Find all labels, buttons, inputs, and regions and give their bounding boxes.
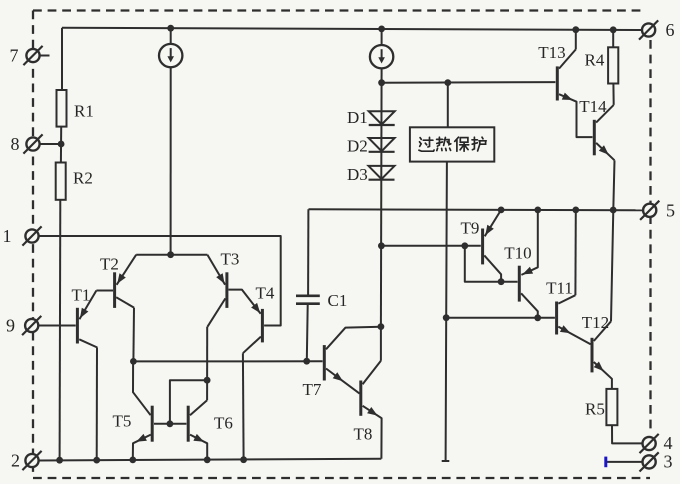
transistor T10 — [519, 210, 538, 318]
resistor R5 — [606, 389, 617, 425]
svg-text:R4: R4 — [585, 51, 605, 70]
svg-text:T13: T13 — [538, 43, 565, 62]
wire R1 to R2 — [60, 127, 62, 163]
svg-text:9: 9 — [6, 316, 15, 336]
wire pin8 to R1/R2 node — [40, 143, 62, 145]
label R2 — [73, 169, 93, 188]
pin 5 terminal — [640, 201, 659, 220]
label T13 — [538, 43, 565, 62]
svg-text:D2: D2 — [347, 137, 368, 156]
svg-text:T7: T7 — [303, 380, 322, 399]
node I1 top junction — [167, 25, 174, 32]
label T9 — [461, 219, 480, 238]
wire T4 collector down to ground rail — [242, 353, 245, 460]
transistor T1 — [77, 291, 97, 348]
svg-text:T5: T5 — [113, 412, 132, 431]
node pin8 junction — [58, 141, 65, 148]
node T2 collector junction — [130, 358, 137, 365]
transistor T13 — [557, 49, 592, 137]
wire bias rail to T13 base — [382, 81, 556, 84]
svg-text:4: 4 — [664, 433, 673, 453]
pin 3 terminal — [640, 452, 659, 471]
pin 7 terminal — [23, 46, 42, 65]
node T10 collector junction — [534, 314, 541, 321]
transistor T9 — [483, 210, 502, 282]
pin 6 terminal — [639, 20, 658, 39]
transistor T5 — [133, 361, 187, 460]
svg-text:1: 1 — [3, 226, 12, 246]
label pin 6 — [666, 20, 675, 40]
node T9 base-collector tie junction — [461, 242, 468, 249]
wire T12 collector / T14 emitter vertical — [611, 160, 615, 321]
label pin 1 — [3, 226, 12, 246]
svg-text:C1: C1 — [328, 291, 348, 310]
label T4 — [256, 284, 275, 303]
label pin 7 — [10, 46, 19, 66]
current source I1 — [159, 44, 182, 67]
node T11 collector junction — [572, 207, 579, 214]
wire I1 top stub — [170, 28, 172, 44]
node ground T1 — [93, 457, 100, 464]
node T9 emitter junction — [498, 207, 505, 214]
node T7/T8 collector junction — [378, 323, 385, 330]
wire pin 3 stub — [607, 461, 642, 463]
svg-text:7: 7 — [10, 46, 19, 66]
wire top supply rail — [62, 28, 642, 30]
wire R2 down to ground rail — [59, 200, 62, 460]
wire T9 base from diode chain — [381, 245, 480, 247]
current source I2 — [370, 45, 393, 68]
transistor T3 — [207, 255, 260, 327]
svg-text:T3: T3 — [221, 250, 240, 269]
diode D1 — [369, 111, 395, 125]
svg-text:T14: T14 — [579, 97, 607, 116]
node ground T4 — [240, 456, 247, 463]
label pin 3 — [664, 452, 673, 472]
node thermal-box top junction — [444, 79, 451, 86]
wire pin1 to T4 base — [39, 236, 281, 326]
svg-text:T8: T8 — [354, 425, 373, 444]
svg-text:T2: T2 — [100, 255, 119, 274]
svg-text:T4: T4 — [256, 284, 275, 303]
svg-text:R5: R5 — [585, 400, 605, 419]
svg-text:T1: T1 — [72, 286, 91, 305]
svg-text:T6: T6 — [214, 414, 233, 433]
node crossover to T3-collector junction — [204, 377, 211, 384]
node ground T5 — [129, 457, 136, 464]
label pin 9 — [6, 316, 15, 336]
label T2 — [100, 255, 119, 274]
svg-text:8: 8 — [11, 134, 20, 154]
resistor R1 — [57, 90, 67, 127]
pin 9 terminal — [22, 316, 41, 335]
wire output rail to pin 5 — [309, 209, 643, 210]
wire T11 collector up to output rail — [574, 210, 576, 295]
node thermal line junction — [443, 314, 450, 321]
wire common emitter rail of T2/T3 — [136, 254, 207, 256]
transistor T12 — [592, 321, 612, 389]
node ground R2 — [56, 457, 63, 464]
label T11 — [546, 279, 573, 298]
transistor T14 — [594, 105, 614, 160]
transistor T8 — [361, 361, 382, 459]
capacitor C1 — [296, 209, 320, 361]
node T13 collector junction — [572, 26, 579, 33]
wire I1 to diff-pair common emitter node — [170, 67, 172, 255]
label D2 — [347, 137, 368, 156]
label D1 — [347, 108, 368, 127]
wire ground rail from pin 2 — [39, 459, 382, 461]
label pin 2 — [11, 451, 20, 471]
label T6 — [214, 414, 233, 433]
diode D2 — [369, 138, 395, 152]
label thermal protection text — [419, 137, 486, 151]
wire pin7 stub — [40, 55, 50, 57]
wire T2-collector rail to T7 base — [133, 360, 322, 362]
wire T2 collector down — [132, 308, 135, 362]
wire R4 top stub — [612, 30, 614, 48]
transistor T4 — [243, 303, 263, 353]
pin 8 terminal — [23, 134, 42, 153]
thermal protection box U1 — [410, 83, 494, 162]
wire base crossover up — [170, 380, 207, 424]
label pin 8 — [11, 134, 20, 154]
label R5 — [585, 400, 605, 419]
wire I2 top stub — [381, 29, 383, 46]
svg-text:R1: R1 — [74, 102, 94, 121]
label pin 4 — [664, 433, 673, 453]
wire R4 bottom to T14 collector — [612, 84, 614, 105]
node I2 top junction — [378, 26, 385, 33]
node T10 emitter junction — [534, 207, 541, 214]
svg-text:D1: D1 — [347, 108, 368, 127]
node C1 bottom junction — [303, 358, 310, 365]
blue artifact mark — [604, 457, 607, 468]
svg-text:D3: D3 — [347, 165, 368, 184]
label T7 — [303, 380, 322, 399]
transistor T11 — [557, 295, 591, 344]
transistor T2 — [96, 255, 136, 308]
node T14 emitter junction on output rail — [610, 207, 617, 214]
svg-text:6: 6 — [666, 20, 675, 40]
pin 4 terminal — [640, 434, 659, 453]
wire T9 tie-down jog — [465, 246, 501, 282]
node bias rail junction — [378, 79, 385, 86]
resistor R4 — [608, 47, 618, 83]
node R4 top junction — [610, 26, 617, 33]
label T8 — [354, 425, 373, 444]
label R1 — [74, 102, 94, 121]
wire T1 collector down to ground rail — [96, 348, 98, 461]
transistor T6 — [188, 400, 207, 460]
label T3 — [221, 250, 240, 269]
diode D3 — [369, 166, 395, 180]
wire thermal box output down — [442, 162, 450, 461]
svg-text:T9: T9 — [461, 219, 480, 238]
label R4 — [585, 51, 605, 70]
label T5 — [113, 412, 132, 431]
svg-text:T11: T11 — [546, 279, 573, 298]
wire T10 base — [501, 281, 517, 283]
label T14 — [579, 97, 607, 116]
svg-text:T12: T12 — [582, 313, 609, 332]
node T10 base junction — [498, 278, 505, 285]
transistor T7 — [324, 327, 381, 394]
svg-text:5: 5 — [666, 201, 675, 221]
wire left branch from top rail down to R1 — [61, 28, 63, 90]
label D3 — [347, 165, 368, 184]
wire T8 collector up to diode chain node — [380, 327, 382, 361]
label pin 5 — [666, 201, 675, 221]
wire I2 bottom / diode chain vertical — [380, 68, 383, 327]
label T1 — [72, 286, 91, 305]
resistor R2 — [56, 163, 66, 200]
wire T3 collector down — [206, 327, 208, 401]
label T12 — [582, 313, 609, 332]
pin 2 terminal — [22, 451, 41, 470]
label C1 — [328, 291, 348, 310]
wire T11 base rail — [446, 317, 555, 319]
svg-text:T10: T10 — [504, 244, 531, 263]
wire pin9 to T1 base — [38, 325, 75, 327]
node T5/T6 base junction — [167, 420, 174, 427]
svg-text:2: 2 — [11, 451, 20, 471]
svg-text:3: 3 — [664, 452, 673, 472]
wire R5 to pin 4 — [612, 425, 642, 443]
node ground T6 — [204, 456, 211, 463]
pin 1 terminal — [22, 226, 41, 245]
node common emitter junction — [167, 251, 174, 258]
wire T13 collector to top rail — [575, 30, 577, 50]
svg-text:R2: R2 — [73, 169, 93, 188]
node T9 base junction on diode chain — [378, 242, 385, 249]
label T10 — [504, 244, 531, 263]
